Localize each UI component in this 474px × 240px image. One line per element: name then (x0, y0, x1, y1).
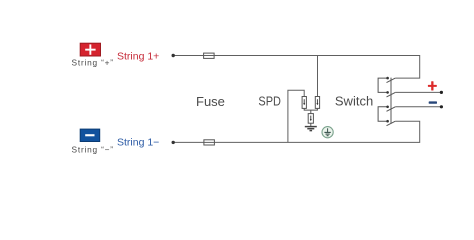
svg-text:Switch: Switch (335, 94, 373, 109)
svg-text:String 1−: String 1− (117, 136, 159, 148)
svg-text:SPD: SPD (258, 94, 281, 109)
svg-text:String “+”: String “+” (72, 58, 114, 68)
svg-text:String 1+: String 1+ (117, 50, 159, 62)
svg-text:String “−”: String “−” (72, 145, 114, 155)
svg-text:Fuse: Fuse (196, 94, 225, 109)
